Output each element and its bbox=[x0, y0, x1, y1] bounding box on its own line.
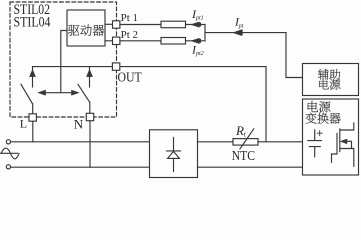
pin Pt2 terminal square bbox=[113, 37, 120, 44]
svg-text:Pt 1: Pt 1 bbox=[121, 13, 138, 24]
relay actuator double-headed arrow bbox=[43, 92, 74, 94]
capacitor C1 polarity + bbox=[317, 131, 322, 136]
Pt2 sensor element body bbox=[161, 38, 186, 45]
bridge diode symbol bbox=[167, 138, 181, 172]
current arrow Ipt1 bbox=[191, 22, 201, 27]
AC source terminal 1 bbox=[6, 140, 10, 144]
wire: OUT net horizontal run bbox=[33, 66, 267, 68]
wire: AC neutral rail from source terminal to bridge bbox=[11, 166, 150, 168]
wire: Pt1 sensor to junction bbox=[186, 24, 206, 26]
thermistor slash bbox=[240, 129, 254, 149]
relay contact K1b fixed lead (N side) bbox=[89, 67, 91, 87]
svg-text:N: N bbox=[74, 117, 84, 132]
wire: OUT net vertical drop to NTC node bbox=[265, 67, 267, 142]
pin Pt1 terminal square bbox=[113, 21, 120, 28]
power converter PS2 box bbox=[303, 99, 359, 175]
pin OUT terminal square bbox=[112, 63, 119, 70]
relay contact K1a blade bbox=[21, 84, 33, 104]
dashed enclosure STIL02/STIL04 module boundary bbox=[10, 2, 117, 117]
wire: Pt2 sensor to junction bbox=[186, 40, 206, 42]
wire: bridge + output to NTC bbox=[198, 141, 234, 143]
Pt1 sensor element body bbox=[161, 21, 186, 28]
bridge rectifier D1 box bbox=[150, 130, 198, 178]
capacitor C1 bbox=[308, 130, 322, 157]
wire: pin L down to AC live wire bbox=[32, 121, 34, 142]
svg-text:OUT: OUT bbox=[118, 70, 143, 85]
svg-text:R: R bbox=[235, 123, 244, 138]
thermistor Rt NTC body bbox=[233, 139, 258, 146]
node: Pt1/Pt2 junction bbox=[204, 25, 206, 41]
wire: driver to pin Pt2 bbox=[105, 40, 113, 42]
AC source sine symbol bbox=[1, 148, 20, 159]
svg-text:pt2: pt2 bbox=[195, 51, 204, 57]
svg-text:Pt 2: Pt 2 bbox=[121, 30, 138, 41]
wire: sense line drop to auxiliary supply bbox=[286, 33, 303, 78]
pin L terminal square bbox=[29, 114, 36, 121]
svg-text:pt: pt bbox=[238, 23, 244, 29]
relay contact K1b arrow bbox=[87, 70, 93, 77]
auxiliary supply PS1 box bbox=[303, 64, 359, 96]
svg-text:pt1: pt1 bbox=[195, 16, 204, 22]
wire: Pt2 sensor lead left bbox=[120, 40, 161, 42]
driver IC U1 box bbox=[67, 10, 105, 46]
pin N terminal square bbox=[86, 113, 93, 120]
relay contact K1a arrow bbox=[30, 70, 36, 77]
label 电源变换器 (power converter) bbox=[305, 101, 340, 124]
relay contact K1b blade bbox=[78, 84, 90, 102]
relay contact K1a fixed lead (L side) bbox=[32, 67, 34, 87]
wire: Pt1 sensor lead left bbox=[120, 24, 161, 26]
wire: blade to pin L bbox=[32, 104, 34, 114]
MOSFET Q1 arrow bbox=[341, 139, 348, 144]
label 驱动器 (driver) bbox=[68, 25, 104, 36]
svg-text:L: L bbox=[20, 116, 27, 130]
wire: blade to pin N bbox=[89, 102, 91, 114]
wire: bottom rail bridge to converter bbox=[198, 166, 303, 168]
label 辅助电源 (auxiliary supply) bbox=[318, 69, 340, 90]
current arrow Ipt bbox=[233, 30, 242, 36]
wire: AC live from source terminal to bridge bbox=[11, 141, 150, 143]
svg-text:t: t bbox=[244, 131, 247, 139]
wire: driver control line to relay actuator bbox=[61, 31, 67, 93]
wire: NTC to converter input node bbox=[258, 141, 303, 143]
wire: pin N down to AC neutral rail bbox=[89, 121, 91, 168]
svg-text:STIL04: STIL04 bbox=[14, 14, 52, 30]
svg-text:NTC: NTC bbox=[232, 148, 255, 163]
MOSFET Q1 bbox=[332, 123, 354, 166]
AC source terminal 2 bbox=[6, 165, 10, 169]
wire: summed sense current line bbox=[205, 32, 286, 34]
current arrow Ipt2 bbox=[191, 38, 201, 43]
wire: driver to pin Pt1 bbox=[105, 23, 113, 25]
